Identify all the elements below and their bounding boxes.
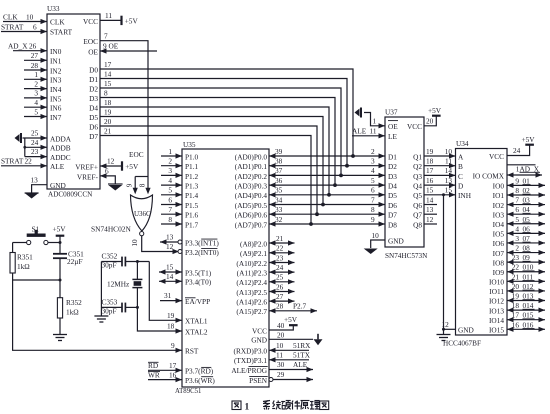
svg-text:P3.2(INT0): P3.2(INT0) xyxy=(185,248,219,257)
svg-text:3: 3 xyxy=(371,157,375,166)
svg-text:14: 14 xyxy=(426,195,434,204)
svg-text:HCC4067BF: HCC4067BF xyxy=(443,340,481,348)
svg-text:11: 11 xyxy=(276,351,283,360)
U35 pin 15 P3.5/T1 xyxy=(159,263,212,278)
svg-text:C353: C353 xyxy=(102,298,118,307)
svg-text:06: 06 xyxy=(523,224,531,233)
svg-text:013: 013 xyxy=(523,292,534,301)
U35 pin 30 ALE/PROG, net ALE xyxy=(231,360,313,375)
svg-text:7: 7 xyxy=(104,31,108,40)
ground below R352 xyxy=(53,335,67,341)
IC U37 SN74HC573N body xyxy=(385,108,428,261)
U35 pin 11 P3.1/TXD, net 51TX xyxy=(234,351,311,366)
U35 pin 4 P1.3 xyxy=(161,176,199,191)
svg-text:D7: D7 xyxy=(388,211,397,220)
U34 pin 21 IO10, net 011 xyxy=(489,272,545,286)
svg-text:D8: D8 xyxy=(388,220,397,229)
svg-text:IN7: IN7 xyxy=(50,113,62,122)
svg-text:ADC0809CCN: ADC0809CCN xyxy=(48,191,93,199)
svg-text:4: 4 xyxy=(168,176,172,185)
svg-text:15: 15 xyxy=(166,263,174,272)
svg-text:RST: RST xyxy=(185,347,199,356)
svg-text:27: 27 xyxy=(31,51,39,60)
U34 pin 9 IO0, net 01 xyxy=(493,176,545,190)
wire P0.6 row to U37 D7 with junction xyxy=(269,205,385,217)
svg-text:25: 25 xyxy=(276,273,284,282)
power +5V at U37 VCC xyxy=(428,106,442,116)
svg-text:IO12: IO12 xyxy=(489,297,504,306)
svg-text:D3: D3 xyxy=(89,94,98,103)
wire U37 Q2 pin 18 to U34 B pin 11 xyxy=(424,157,456,169)
U34 pin 17 IO14, net 015 xyxy=(489,311,545,325)
svg-text:9: 9 xyxy=(371,215,375,224)
wire C352 left to ground rail xyxy=(101,261,122,263)
wire C353 right to crystal node xyxy=(125,306,138,309)
U34 pin 3 IO6, net 07 xyxy=(493,234,545,248)
svg-text:P3.7(RD): P3.7(RD) xyxy=(185,367,214,376)
U34 pin 4 IO5, net 06 xyxy=(493,224,545,238)
svg-text:09: 09 xyxy=(523,253,531,262)
svg-text:28: 28 xyxy=(31,61,39,70)
svg-text:PSEN: PSEN xyxy=(249,376,268,385)
svg-text:8: 8 xyxy=(168,215,172,224)
svg-text:016: 016 xyxy=(523,320,534,329)
svg-text:16: 16 xyxy=(169,370,177,379)
svg-text:26: 26 xyxy=(29,42,37,51)
svg-text:15: 15 xyxy=(426,186,434,195)
U34 pin 16 IO15, net 016 xyxy=(489,320,545,334)
svg-text:Q3: Q3 xyxy=(413,172,422,181)
U35 pin 21 P2.0 xyxy=(240,234,294,249)
svg-text:(A13)P2.5: (A13)P2.5 xyxy=(236,288,267,297)
svg-text:IO5: IO5 xyxy=(493,230,505,239)
svg-text:START: START xyxy=(50,28,73,37)
svg-text:P1.0: P1.0 xyxy=(185,152,199,161)
svg-text:18: 18 xyxy=(104,98,112,107)
svg-text:(A11)P2.3: (A11)P2.3 xyxy=(237,269,268,278)
svg-text:20: 20 xyxy=(426,117,434,126)
svg-text:01: 01 xyxy=(523,176,531,185)
svg-text:ALE/PROG: ALE/PROG xyxy=(231,366,267,375)
svg-text:1: 1 xyxy=(373,117,377,126)
svg-text:P2.7: P2.7 xyxy=(293,302,307,311)
wire data bus D6: U33 pin 20 to U35 P0.6 / U37 D7 xyxy=(89,117,317,214)
wire data bus D2: U33 pin 15 to U35 P0.2 / U37 D3 xyxy=(89,79,341,176)
svg-text:9: 9 xyxy=(515,176,519,185)
svg-text:22µF: 22µF xyxy=(67,257,83,266)
svg-text:(AD0)P0.0: (AD0)P0.0 xyxy=(235,152,268,161)
svg-text:12MHz: 12MHz xyxy=(107,280,130,289)
U34 pin 22 IO9, net 010 xyxy=(493,263,545,277)
svg-text:(A10)P2.2: (A10)P2.2 xyxy=(236,259,267,268)
svg-text:1: 1 xyxy=(168,147,172,156)
svg-text:ADDA: ADDA xyxy=(50,134,72,143)
svg-text:P1.5: P1.5 xyxy=(185,201,199,210)
U34 address pin names xyxy=(458,152,472,200)
svg-text:EA/VPP: EA/VPP xyxy=(185,297,210,306)
U35 pin 13 P3.3/INT1 xyxy=(160,233,219,248)
svg-text:D2: D2 xyxy=(388,162,397,171)
svg-text:02: 02 xyxy=(523,186,531,195)
caption figure title 图1 系统硬件原理图 xyxy=(232,401,329,413)
wire data bus D0: U33 pin 17 to U35 P0.0 / U37 D1 xyxy=(89,60,353,156)
svg-text:21: 21 xyxy=(104,126,112,135)
svg-text:6: 6 xyxy=(33,23,37,32)
wire P0.0 row to U37 D1 with junction xyxy=(269,147,385,159)
svg-text:10: 10 xyxy=(131,239,139,247)
svg-text:18: 18 xyxy=(167,322,175,331)
svg-text:Q8: Q8 xyxy=(413,220,422,229)
svg-text:VCC: VCC xyxy=(407,122,422,131)
wire U37 Q3 pin 17 to U34 C pin 14 xyxy=(424,166,456,178)
svg-text:OE: OE xyxy=(88,47,98,56)
svg-text:4: 4 xyxy=(515,224,519,233)
wire U36C output to U35 P3.2 xyxy=(131,236,173,252)
svg-text:36: 36 xyxy=(275,176,283,185)
crystal Y1 12MHz xyxy=(107,262,142,308)
IC U33 ADC0809CCN body xyxy=(47,4,100,199)
svg-text:IN5: IN5 xyxy=(50,94,62,103)
ground below crystal caps xyxy=(94,316,108,322)
svg-text:XTAL1: XTAL1 xyxy=(185,317,208,326)
svg-text:32: 32 xyxy=(275,215,283,224)
wire data bus D3: U33 pin 8 to U35 P0.3 / U37 D4 xyxy=(89,88,335,185)
svg-text:21: 21 xyxy=(512,272,520,281)
U33 pin 6 START, net STRAT xyxy=(1,23,73,37)
svg-text:8: 8 xyxy=(138,183,146,187)
svg-text:P1.3: P1.3 xyxy=(185,182,199,191)
svg-text:23: 23 xyxy=(512,253,520,262)
power +5V above C351 xyxy=(53,225,67,236)
svg-text:U37: U37 xyxy=(385,108,398,117)
power +5V at U35 VCC xyxy=(284,315,298,325)
U33 pin 6 VREF- wire xyxy=(77,167,115,185)
svg-text:IO8: IO8 xyxy=(493,258,505,267)
svg-text:ALE: ALE xyxy=(293,360,308,369)
svg-text:Q1: Q1 xyxy=(413,152,422,161)
U37 D input pin names xyxy=(388,152,397,229)
svg-text:08: 08 xyxy=(523,244,531,253)
U33 pin 27 IN1 xyxy=(24,51,62,66)
svg-text:INH: INH xyxy=(458,191,472,200)
svg-text:16: 16 xyxy=(426,176,434,185)
svg-text:D4: D4 xyxy=(388,182,397,191)
svg-text:10: 10 xyxy=(372,231,380,240)
wire U37 Q5 pin 15 to U34 INH pin 15 xyxy=(424,186,456,198)
capacitor C352 30pF xyxy=(102,251,126,269)
U35 pin 10 P3.0/RXD, net 51RX xyxy=(234,341,312,356)
U34 pin 6 IO3, net 04 xyxy=(493,205,545,219)
svg-text:2: 2 xyxy=(515,244,519,253)
svg-text:IO9: IO9 xyxy=(493,268,505,277)
svg-text:P3.5(T1): P3.5(T1) xyxy=(185,268,212,277)
U35 pin 1 P1.0 xyxy=(161,147,199,162)
svg-text:28: 28 xyxy=(276,302,284,311)
svg-text:012: 012 xyxy=(523,282,534,291)
svg-text:P1.7: P1.7 xyxy=(185,220,199,229)
svg-text:(TXD)P3.1: (TXD)P3.1 xyxy=(234,356,267,365)
U34 pin 7 IO2, net 03 xyxy=(493,196,545,210)
U37 Q output pin names xyxy=(413,152,422,229)
U35 pin 27 P2.6 xyxy=(236,292,294,307)
capacitor C351 22uF xyxy=(53,250,84,266)
U35 pin 16 P3.6/WR, net WR xyxy=(148,370,215,385)
svg-text:7: 7 xyxy=(515,196,519,205)
svg-text:+5V: +5V xyxy=(53,225,67,234)
U33 pin 24 ADDB xyxy=(25,138,71,153)
svg-text:(AD4)P0.4: (AD4)P0.4 xyxy=(235,191,268,200)
svg-text:1: 1 xyxy=(34,70,38,79)
U34 pin 2 IO7, net 08 xyxy=(493,244,545,258)
svg-text:9 OE: 9 OE xyxy=(103,42,119,51)
svg-text:12: 12 xyxy=(442,320,450,329)
svg-text:37: 37 xyxy=(275,166,283,175)
U33 pin 1 IN3 xyxy=(24,70,62,85)
svg-text:1kΩ: 1kΩ xyxy=(17,262,30,271)
U35 pin 3 P1.2 xyxy=(161,166,199,181)
U35 pin 40 VCC wire xyxy=(252,321,293,335)
U35 pin 5 P1.4 xyxy=(161,186,199,201)
svg-text:IO3: IO3 xyxy=(493,210,505,219)
svg-text:9: 9 xyxy=(126,183,134,187)
svg-text:22: 22 xyxy=(512,263,520,272)
U37 pin 11 LE, net ALE xyxy=(352,127,397,142)
svg-text:25: 25 xyxy=(31,129,39,138)
resistor R352 1k xyxy=(57,298,82,318)
wire crystal bottom to XTAL2 xyxy=(137,307,182,331)
svg-text:4: 4 xyxy=(34,98,38,107)
ground at U33 address pins xyxy=(15,133,22,143)
svg-text:D1: D1 xyxy=(89,75,98,84)
U34 pin 1 IO COMX, net AD_X xyxy=(473,164,542,180)
svg-text:015: 015 xyxy=(523,311,534,320)
svg-text:D6: D6 xyxy=(388,201,397,210)
wire P0.2 row to U37 D3 with junction xyxy=(269,166,385,178)
capacitor C353 30pF xyxy=(102,298,126,316)
svg-text:13: 13 xyxy=(426,205,434,214)
svg-text:17: 17 xyxy=(512,311,520,320)
svg-text:4: 4 xyxy=(371,166,375,175)
svg-text:34: 34 xyxy=(275,195,283,204)
U35 pin 9 RST name xyxy=(171,341,199,356)
svg-text:VREF-: VREF- xyxy=(77,172,99,181)
svg-text:GND: GND xyxy=(251,336,267,345)
svg-text:(AD3)P0.3: (AD3)P0.3 xyxy=(235,182,268,191)
svg-text:IO10: IO10 xyxy=(489,278,504,287)
ground at VREF- xyxy=(108,184,123,191)
svg-text:5: 5 xyxy=(371,176,375,185)
label SN74HC02N xyxy=(91,225,131,234)
svg-text:19: 19 xyxy=(426,147,434,156)
svg-text:IO6: IO6 xyxy=(493,239,505,248)
svg-text:12: 12 xyxy=(166,242,174,251)
svg-text:U33: U33 xyxy=(47,4,60,13)
svg-text:12: 12 xyxy=(426,215,434,224)
svg-text:Q7: Q7 xyxy=(413,211,422,220)
svg-text:ADDB: ADDB xyxy=(50,144,71,153)
U34 pin 23 IO8, net 09 xyxy=(493,253,545,267)
U35 P0 port pin names xyxy=(235,152,268,229)
svg-text:D3: D3 xyxy=(388,172,397,181)
wire U37 Q1 pin 19 to U34 A pin 10 xyxy=(424,147,456,159)
svg-text:A: A xyxy=(458,152,464,161)
svg-text:13: 13 xyxy=(31,176,39,185)
U33 pin 5 IN7 xyxy=(24,107,62,122)
svg-text:IN6: IN6 xyxy=(50,104,62,113)
wire U34 INH row to GND xyxy=(442,193,445,329)
svg-text:D1: D1 xyxy=(388,152,397,161)
wire C351 to node xyxy=(59,258,61,280)
power +5V at U33 VCC xyxy=(122,16,139,26)
U34 pin 5 IO4, net 05 xyxy=(493,215,545,229)
wire crystal top to XTAL1 xyxy=(149,262,182,321)
svg-text:24: 24 xyxy=(513,146,521,155)
U35 pin 8 P1.7 xyxy=(161,215,199,230)
U35 pin 18 XTAL2 name xyxy=(167,322,208,337)
svg-text:IN2: IN2 xyxy=(50,66,62,75)
U37 pin 1 OE wire xyxy=(364,113,398,132)
svg-text:30: 30 xyxy=(277,360,285,369)
U35 pin 26 P2.5 xyxy=(236,282,294,297)
svg-text:(A15)P2.7: (A15)P2.7 xyxy=(236,307,267,316)
wire S1 right terminal to +5V rail xyxy=(48,236,62,254)
svg-text:EOC: EOC xyxy=(129,150,144,159)
svg-text:16: 16 xyxy=(512,320,520,329)
wire node to R352 xyxy=(59,280,61,298)
U35 pin 14 P3.4/T0 xyxy=(159,272,212,287)
svg-text:10: 10 xyxy=(26,13,34,22)
svg-text:(AD7)P0.7: (AD7)P0.7 xyxy=(235,220,268,229)
U37 pin 20 VCC wire xyxy=(407,117,436,132)
U35 pin 19 XTAL1 name xyxy=(167,311,208,326)
svg-text:P1.1: P1.1 xyxy=(185,162,199,171)
svg-text:14: 14 xyxy=(445,166,453,175)
U34 pin 19 IO12, net 013 xyxy=(489,292,545,306)
U35 pin 31 EA/VPP xyxy=(160,291,210,306)
svg-text:1: 1 xyxy=(245,403,250,413)
svg-text:(A8)P2.0: (A8)P2.0 xyxy=(240,239,267,248)
svg-text:LE: LE xyxy=(388,132,397,141)
svg-text:Q2: Q2 xyxy=(413,162,422,171)
svg-text:24: 24 xyxy=(276,263,284,272)
wire S1 left terminal to R351 xyxy=(13,243,27,253)
svg-text:R352: R352 xyxy=(66,298,82,307)
svg-text:17: 17 xyxy=(426,166,434,175)
U37 pin 13 Q7 stub xyxy=(424,205,437,214)
svg-text:7: 7 xyxy=(168,205,172,214)
svg-text:GND: GND xyxy=(50,181,66,190)
svg-text:GND: GND xyxy=(458,326,474,335)
svg-text:19: 19 xyxy=(104,107,112,116)
svg-text:C352: C352 xyxy=(102,251,118,260)
wire R352 to ground xyxy=(59,318,61,335)
svg-text:5: 5 xyxy=(34,107,38,116)
svg-text:IO13: IO13 xyxy=(489,306,504,315)
svg-text:5: 5 xyxy=(515,215,519,224)
svg-text:21: 21 xyxy=(276,234,284,243)
svg-text:+5V: +5V xyxy=(125,162,139,171)
svg-text:23: 23 xyxy=(31,147,39,156)
svg-text:29: 29 xyxy=(277,370,285,379)
svg-text:14: 14 xyxy=(166,272,174,281)
svg-text:2: 2 xyxy=(371,147,375,156)
svg-text:P3.3(INT1): P3.3(INT1) xyxy=(185,238,219,247)
wire reset node to U35 RST xyxy=(13,280,182,350)
svg-text:IO15: IO15 xyxy=(489,325,504,334)
svg-text:51TX: 51TX xyxy=(293,351,311,360)
svg-text:6: 6 xyxy=(105,167,109,176)
svg-text:1kΩ: 1kΩ xyxy=(66,307,79,316)
svg-text:D0: D0 xyxy=(89,65,98,74)
svg-text:U34: U34 xyxy=(456,139,469,148)
U37 pin 12 Q8 stub xyxy=(424,215,437,224)
svg-text:IO2: IO2 xyxy=(493,201,505,210)
U36C output bubble pin 10 xyxy=(140,232,144,236)
svg-text:15: 15 xyxy=(445,186,453,195)
svg-text:18: 18 xyxy=(512,301,520,310)
svg-text:8: 8 xyxy=(515,186,519,195)
U34 pin 18 IO13, net 014 xyxy=(489,301,545,315)
svg-text:20: 20 xyxy=(277,330,285,339)
svg-text:XTAL2: XTAL2 xyxy=(185,327,208,336)
svg-text:Q4: Q4 xyxy=(413,182,422,191)
wire P0.3 row to U37 D4 with junction xyxy=(269,176,385,188)
svg-text:C: C xyxy=(458,172,463,181)
svg-text:P3.4(T0): P3.4(T0) xyxy=(185,278,212,287)
svg-text:P3.6(WR): P3.6(WR) xyxy=(185,376,215,385)
svg-text:51RX: 51RX xyxy=(293,341,311,350)
svg-text:IO0: IO0 xyxy=(493,182,505,191)
svg-text:011: 011 xyxy=(523,272,534,281)
svg-text:VCC: VCC xyxy=(252,326,267,335)
svg-text:U36C: U36C xyxy=(134,210,151,218)
IC U35 AT89C51 body xyxy=(175,140,269,395)
svg-text:D5: D5 xyxy=(388,191,397,200)
svg-text:D: D xyxy=(458,182,463,191)
svg-text:R351: R351 xyxy=(17,253,33,262)
U35 pin 23 P2.2 xyxy=(236,253,294,268)
svg-text:23: 23 xyxy=(276,253,284,262)
wire P0.1 row to U37 D2 with junction xyxy=(269,157,385,169)
U35 pin 2 P1.1 xyxy=(161,157,199,172)
svg-text:D2: D2 xyxy=(89,84,98,93)
U35 pin 6 P1.5 xyxy=(161,195,199,210)
svg-text:10: 10 xyxy=(276,341,284,350)
U33 pin 23 ADDC xyxy=(25,147,71,162)
gate U36C SN74HC02 NOR (inverter) xyxy=(126,177,153,232)
svg-text:IO COMX: IO COMX xyxy=(473,171,505,180)
svg-text:CLK: CLK xyxy=(3,13,18,22)
svg-text:SN74HC02N: SN74HC02N xyxy=(91,225,131,234)
svg-text:IN1: IN1 xyxy=(50,57,62,66)
U35 pin 20 GND wire xyxy=(251,330,313,344)
svg-text:27: 27 xyxy=(276,292,284,301)
svg-text:IO1: IO1 xyxy=(493,191,505,200)
U33 pin 3 IN5 xyxy=(24,89,62,104)
wire address tie xyxy=(23,138,26,157)
ground below U34 xyxy=(437,329,451,340)
U33 pin 28 IN2 xyxy=(24,61,62,76)
svg-text:07: 07 xyxy=(523,234,531,243)
svg-text:11: 11 xyxy=(445,157,452,166)
svg-text:3: 3 xyxy=(34,89,38,98)
svg-text:04: 04 xyxy=(523,205,531,214)
svg-text:IN0: IN0 xyxy=(50,47,62,56)
U33 pin 9 OE, net OE xyxy=(88,42,157,57)
svg-text:IN3: IN3 xyxy=(50,76,62,85)
svg-text:19: 19 xyxy=(167,311,175,320)
svg-text:22: 22 xyxy=(276,244,284,253)
